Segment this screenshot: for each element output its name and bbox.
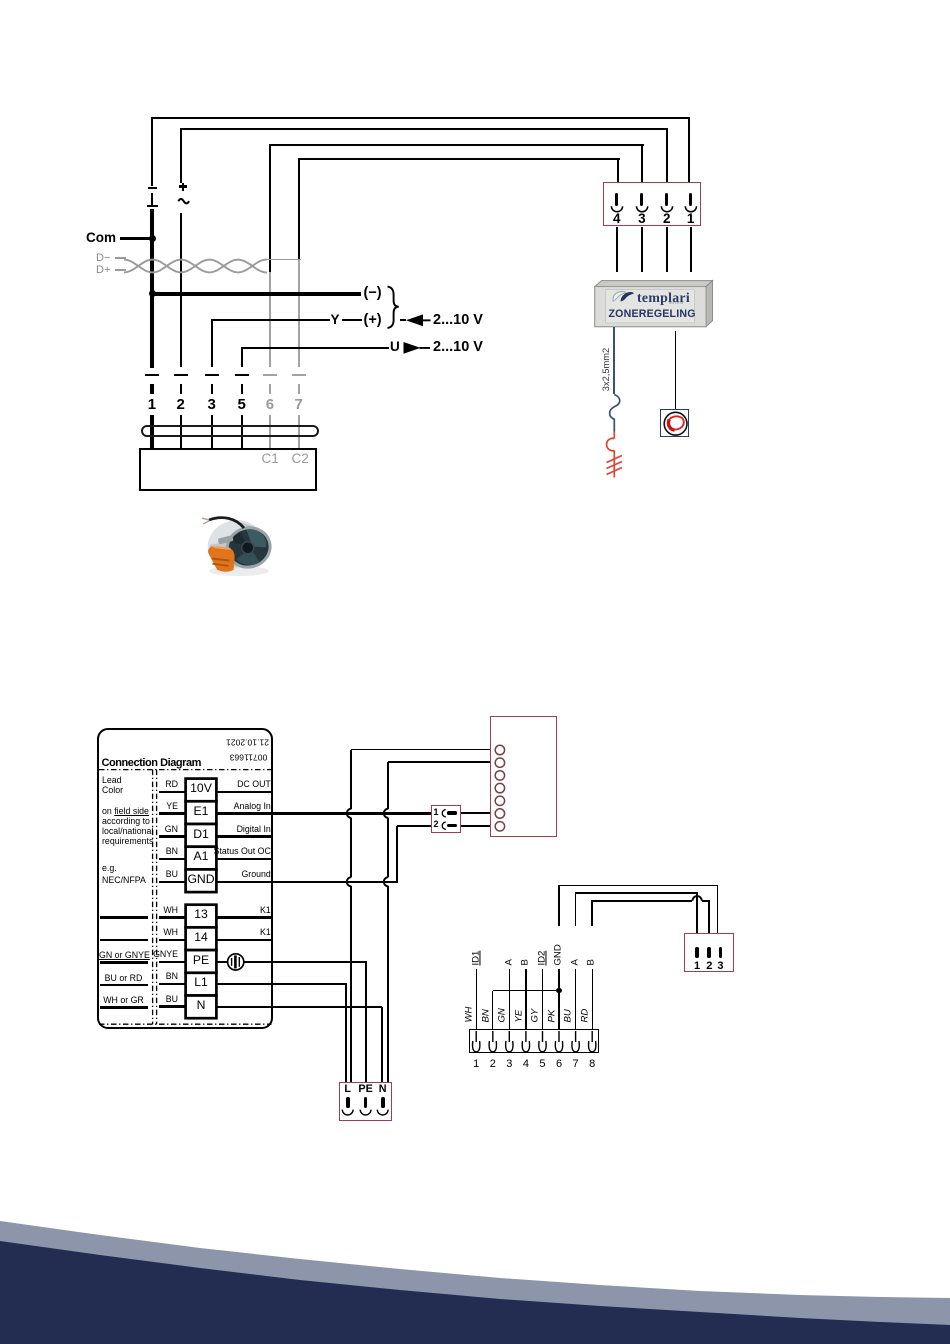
1-2-3 pin bar 3 bbox=[719, 947, 723, 958]
terminal 1 wire into actuator box bbox=[150, 415, 154, 448]
terminal label A1 bbox=[170, 850, 232, 863]
terminal 3 break dash bbox=[205, 374, 219, 377]
terminal 2 break dash bbox=[174, 374, 188, 377]
note Lead bbox=[102, 776, 122, 786]
wire plug pin 2 to controller bbox=[666, 227, 668, 272]
signal label Status Out OC bbox=[140, 847, 271, 857]
plug pin 2 socket arc bbox=[0, 0, 950, 400]
2-pin connector number 1 bbox=[434, 808, 439, 818]
terminal label E1 bbox=[170, 805, 232, 818]
lead wire BN bbox=[159, 858, 186, 861]
terminal 3 wire below break bbox=[211, 384, 213, 394]
terminal 1 break dash bbox=[145, 374, 159, 377]
label K1 row1 bbox=[140, 906, 271, 916]
field label BU or RD bbox=[99, 974, 148, 984]
terminal 1 thick vertical wire bbox=[150, 209, 154, 368]
PE wire to external connector bbox=[244, 961, 367, 963]
1-2-3 pin number 3 bbox=[713, 960, 727, 972]
note requirements bbox=[102, 837, 153, 847]
label date 21.10.2021 (rotated) bbox=[224, 737, 271, 746]
1-2-3 pin bar 2 bbox=[707, 947, 711, 958]
templari logo leaf bbox=[0, 0, 950, 500]
connection diagram rounded frame bbox=[97, 728, 273, 1029]
lead wire WH row1 bbox=[159, 916, 186, 919]
wire B right vertical down to plug pin 2 bbox=[666, 129, 668, 184]
terminal label 10V bbox=[170, 782, 232, 795]
B wire horizontal to 1-2-3 connector (left) bbox=[591, 900, 692, 902]
D+ stub wire bbox=[115, 269, 126, 271]
terminal label D1 bbox=[170, 828, 232, 841]
L1 vertical wire to L-PE-N connector bbox=[345, 984, 347, 1081]
2-pin connector box bbox=[431, 805, 461, 833]
strip pin number 4 bbox=[519, 1058, 533, 1070]
B wire vertical above strip bbox=[591, 901, 593, 927]
strip pin 4 upper wire bbox=[525, 969, 526, 1030]
N vertical wire to L-PE-N connector bbox=[381, 1007, 383, 1082]
GND wire vertical above strip bbox=[558, 886, 560, 927]
pump box bbox=[660, 409, 689, 437]
fan unit box bbox=[490, 716, 557, 837]
1-2-3 pin number 1 bbox=[690, 960, 704, 972]
plug pin 3 socket arc bbox=[0, 0, 950, 400]
note on field side bbox=[102, 807, 149, 817]
L-PE-N pin bar PE bbox=[364, 1097, 368, 1108]
label (+) bbox=[364, 313, 382, 329]
field lead line row2 bbox=[100, 939, 149, 942]
wire 2-pin connector pin2 to fan circle 7 bbox=[461, 825, 489, 827]
strip wire color GY bbox=[531, 1009, 542, 1023]
plug pin number 3 bbox=[638, 212, 646, 227]
terminal 6 break dash bbox=[263, 374, 277, 377]
fan N supply wire horizontal bbox=[388, 761, 489, 763]
field lead line GN or GNYE bbox=[100, 961, 149, 964]
strip pin number 5 bbox=[535, 1058, 549, 1070]
A wire horizontal to 1-2-3 connector bbox=[575, 892, 698, 894]
terminal 6 wire below break bbox=[269, 384, 271, 394]
wire controller to pump bbox=[675, 331, 677, 410]
label 2...10 V (U) bbox=[433, 340, 483, 356]
label C2 bbox=[292, 452, 309, 467]
wire A left vertical to terminal 1 symbol bbox=[151, 118, 153, 186]
terminal label GND bbox=[170, 873, 232, 886]
PE wire to earth symbol bbox=[216, 961, 227, 964]
strip pin 1 upper wire bbox=[476, 969, 477, 1030]
plug pin 4 socket arc bbox=[0, 0, 950, 400]
2-pin connector bar 1 bbox=[447, 811, 457, 815]
terminal label N bbox=[170, 999, 232, 1012]
field lead line row1 bbox=[100, 916, 149, 919]
lead wire BU row5 bbox=[159, 1005, 186, 1008]
strip pin 7 upper wire bbox=[575, 969, 576, 1030]
terminal number 1 bbox=[148, 397, 156, 414]
fan L supply wire horizontal bbox=[351, 749, 489, 751]
terminal 5 wire into actuator box bbox=[241, 415, 243, 448]
note local/national bbox=[102, 827, 153, 837]
plug pin number 1 bbox=[687, 212, 695, 227]
fan L supply vertical (upper) bbox=[350, 750, 352, 809]
lead label BN row4 bbox=[118, 972, 178, 982]
wire A right vertical down to plug pin 1 bbox=[688, 118, 690, 183]
signal label Analog In bbox=[140, 802, 271, 812]
strip wire color BU bbox=[564, 1009, 575, 1022]
strip pin 3 upper wire bbox=[509, 969, 510, 1030]
terminal 6 wire into actuator box bbox=[269, 415, 271, 448]
(-) thick wire from terminal 1 bbox=[154, 292, 361, 296]
signal wire DC OUT bbox=[216, 791, 270, 794]
plug connector 4-3-2-1 box bbox=[603, 182, 702, 226]
terminal number 5 bbox=[238, 397, 246, 414]
fan N supply vertical (upper) bbox=[387, 762, 389, 808]
Com wire bbox=[120, 237, 152, 240]
terminal number 7 bbox=[295, 397, 303, 414]
field label GN or GNYE bbox=[99, 951, 148, 961]
terminal 2 wire below break bbox=[180, 384, 182, 394]
terminal 7 wire into actuator box bbox=[298, 415, 300, 448]
wire 2-pin connector pin2 left bbox=[397, 825, 432, 827]
plug pin 3 contact bar bbox=[640, 193, 643, 206]
note according to bbox=[102, 817, 150, 827]
label U bbox=[390, 340, 400, 355]
1-2-3 pin bar 1 bbox=[695, 947, 699, 958]
plug pin 2 contact bar bbox=[665, 193, 668, 206]
signal wire Ground bbox=[216, 881, 270, 884]
signal label DC OUT bbox=[140, 780, 271, 790]
power cable squiggle bbox=[0, 0, 950, 500]
strip pin number 2 bbox=[486, 1058, 500, 1070]
terminal 2 wire into actuator box bbox=[180, 415, 182, 448]
strip signal label A pin 7 bbox=[570, 960, 581, 966]
dash Y to (+) bbox=[342, 319, 362, 321]
terminal 2 symbol tilde bbox=[0, 0, 950, 400]
label 3x2,5mm2 bbox=[601, 348, 611, 391]
strip pin 8 upper wire bbox=[592, 969, 593, 1030]
cable shield arc (red) bbox=[0, 0, 950, 500]
junction dot pin6 GND bbox=[556, 988, 561, 993]
signal label Ground bbox=[140, 870, 271, 880]
A wire drop to connector pin 1 bbox=[696, 893, 698, 933]
strip signal label A pin 3 bbox=[504, 960, 515, 966]
field lead line BU or RD bbox=[100, 984, 149, 987]
terminal 2 vertical wire bbox=[180, 213, 182, 368]
lead label BN bbox=[118, 847, 178, 857]
signal wire Analog In bbox=[216, 812, 270, 815]
lead wire BN row4 bbox=[159, 983, 186, 986]
strip signal label B pin 8 bbox=[587, 960, 598, 966]
lead label YE bbox=[118, 802, 178, 812]
A wire vertical above strip bbox=[575, 893, 577, 926]
gray link twisted pair to terminal 7 line bbox=[266, 259, 301, 261]
twisted pair D-/D+ bbox=[0, 0, 950, 400]
label D+ bbox=[96, 264, 110, 276]
plug pin 4 contact bar bbox=[615, 193, 618, 206]
terminal label PE bbox=[170, 954, 232, 967]
bridge wire pin2 to pin6 bbox=[493, 990, 559, 991]
power cable blue line bbox=[613, 327, 615, 395]
terminal 7 gray vertical wire bbox=[298, 260, 300, 368]
strip signal label ID1 pin 1 bbox=[471, 951, 482, 966]
wire D left vertical down to twisted pair bbox=[298, 159, 300, 263]
L-PE-N label PE bbox=[358, 1084, 374, 1096]
terminal 7 wire below break bbox=[298, 384, 300, 394]
lead label WH row2 bbox=[118, 928, 178, 938]
signal wire Digital In bbox=[216, 835, 270, 838]
terminal number 3 bbox=[208, 397, 216, 414]
1-2-3 pin number 2 bbox=[702, 960, 716, 972]
terminal 2 symbol plus bbox=[182, 183, 184, 191]
2-pin connector number 2 bbox=[434, 820, 439, 830]
lead wire GN bbox=[159, 835, 186, 838]
L-PE-N label L bbox=[340, 1084, 356, 1096]
label Y bbox=[331, 313, 340, 328]
L-PE-N label N bbox=[375, 1084, 391, 1096]
B wire horizontal to 1-2-3 connector (right) bbox=[702, 900, 711, 902]
terminal 6 gray vertical wire bbox=[269, 272, 271, 368]
lead wire GNYE row3 bbox=[159, 961, 186, 964]
wire D horizontal (D+ line to plug pin 4) bbox=[298, 158, 620, 160]
note e.g. bbox=[102, 864, 117, 874]
lead wire WH row2 bbox=[159, 939, 186, 942]
cable bundle stadium outline bbox=[141, 425, 319, 437]
lead wire BU bbox=[159, 881, 186, 884]
lead label RD bbox=[118, 780, 178, 790]
strip pin number 6 bbox=[552, 1058, 566, 1070]
pump circle bbox=[0, 0, 950, 500]
strip wire color RD bbox=[580, 1009, 591, 1023]
dash brace to arrow bbox=[400, 319, 406, 321]
strip pin 5 upper wire bbox=[542, 969, 543, 1030]
strip wire color YE bbox=[514, 1010, 525, 1023]
GND wire drop to connector pin 3 bbox=[717, 886, 719, 934]
terminal 5 vertical wire bbox=[241, 348, 243, 367]
brace joining (-) and (+) bbox=[0, 0, 950, 400]
Y wire from terminal 3 bbox=[211, 319, 330, 321]
strip pin number 3 bbox=[502, 1058, 516, 1070]
terminal label 14 bbox=[170, 931, 232, 944]
wire plug pin 4 to controller bbox=[616, 227, 618, 272]
label 2...10 V (Y) bbox=[433, 313, 483, 329]
lead label BU row5 bbox=[118, 995, 178, 1005]
L-PE-N connector box bbox=[339, 1082, 392, 1121]
1-2-3 connector box bbox=[684, 933, 734, 972]
wire plug pin 3 to controller bbox=[641, 227, 643, 272]
actuator product photo bbox=[198, 514, 278, 580]
PE vertical wire to L-PE-N connector bbox=[365, 962, 367, 1082]
plug pin number 4 bbox=[613, 212, 621, 227]
wire D right vertical down to plug pin 4 bbox=[617, 159, 619, 183]
terminal 1 common symbol (bar and inverted T) bbox=[148, 187, 157, 189]
lead label GNYE row3 bbox=[118, 950, 178, 960]
signal wire Status Out OC bbox=[216, 858, 270, 861]
lead label BU bbox=[118, 870, 178, 880]
GND wire horizontal to 1-2-3 connector bbox=[558, 885, 718, 887]
L-PE-N pin bar L bbox=[346, 1097, 350, 1108]
fan N supply vertical (lower) bbox=[387, 886, 389, 1081]
relay wire K1 row1 bbox=[216, 916, 270, 919]
wire plug pin 1 to controller bbox=[690, 227, 692, 272]
B wire drop to connector pin 2 bbox=[708, 901, 710, 934]
field lead line WH or GR bbox=[100, 1006, 149, 1009]
label Com bbox=[86, 231, 116, 246]
label D- bbox=[96, 252, 110, 264]
terminal 5 wire below break bbox=[241, 384, 243, 394]
L-PE-N pin bar N bbox=[381, 1097, 385, 1108]
earth slashes (red) bbox=[0, 0, 950, 500]
junction dot Com on terminal 1 bbox=[149, 235, 156, 242]
strip pin number 7 bbox=[569, 1058, 583, 1070]
wire B left vertical to ~+ symbol bbox=[180, 129, 182, 184]
strip wire color BN bbox=[481, 1009, 492, 1022]
wire C horizontal (D- line to plug pin 3) bbox=[269, 144, 644, 146]
terminal 5 break dash bbox=[235, 374, 249, 377]
junction dot (-) on terminal 1 bbox=[149, 290, 156, 297]
L1 wire to external connector bbox=[216, 983, 347, 985]
field label WH or GR bbox=[99, 996, 148, 1006]
terminal number 6 bbox=[266, 397, 274, 414]
lead wire RD bbox=[159, 791, 186, 794]
Analog In wire to 2-pin connector bbox=[216, 812, 431, 815]
wire A horizontal (terminal 1 to plug pin 1) bbox=[151, 117, 690, 119]
lead wire YE bbox=[159, 812, 186, 815]
strip pin 6 upper wire bbox=[558, 969, 559, 1030]
plug pin number 2 bbox=[663, 212, 671, 227]
N wire to external connector bbox=[216, 1006, 382, 1008]
D- stub wire bbox=[115, 257, 126, 259]
arrow right 2...10V bbox=[0, 0, 950, 400]
U wire from terminal 5 bbox=[241, 347, 389, 349]
wire C right vertical down to plug pin 3 bbox=[641, 145, 643, 183]
templari logo text bbox=[637, 290, 690, 305]
pump red impeller scribble bbox=[0, 0, 950, 500]
vertical wire Ground to 2-pin connector bbox=[396, 826, 398, 882]
plug pin 1 socket arc bbox=[0, 0, 950, 400]
relay wire K1 row2 bbox=[216, 939, 270, 942]
8-pin terminal strip box bbox=[469, 1029, 599, 1053]
lead label WH row1 bbox=[118, 906, 178, 916]
strip wire color GN bbox=[498, 1008, 509, 1022]
terminal 3 wire into actuator box bbox=[211, 415, 213, 448]
note NEC/NFPA bbox=[102, 876, 146, 886]
templari logo small text bbox=[669, 301, 684, 305]
strip signal label B pin 4 bbox=[521, 960, 532, 966]
strip signal label GND pin 6 bbox=[554, 945, 565, 966]
wire B horizontal (terminal 2 to plug pin 2) bbox=[180, 128, 668, 130]
wire 2-pin connector pin1 to fan circle 6 bbox=[461, 812, 489, 814]
wire C left vertical down to twisted pair bbox=[269, 145, 271, 273]
terminal number 2 bbox=[177, 397, 185, 414]
Ground wire extension to 2-pin connector riser bbox=[269, 881, 398, 883]
strip pin number 1 bbox=[469, 1058, 483, 1070]
arrow left 2...10V bbox=[0, 0, 950, 400]
label C1 bbox=[262, 452, 279, 467]
terminal label 13 bbox=[170, 908, 232, 921]
fan L supply vertical (middle) bbox=[350, 818, 352, 877]
strip wire color PK bbox=[547, 1010, 558, 1023]
plug pin 1 contact bar bbox=[689, 193, 692, 206]
signal label Digital In bbox=[140, 825, 271, 835]
strip pin 2 upper wire bbox=[492, 991, 493, 1030]
actuator terminal box bbox=[139, 448, 317, 490]
fan N supply vertical (middle) bbox=[387, 818, 389, 877]
2-pin connector bar 2 bbox=[447, 824, 457, 828]
terminal label L1 bbox=[170, 976, 232, 989]
title Connection Diagram bbox=[102, 757, 201, 769]
strip signal label ID2 pin 5 bbox=[537, 951, 548, 966]
strip wire color WH bbox=[464, 1007, 475, 1023]
label 00711663 (rotated) bbox=[229, 752, 268, 761]
note Color bbox=[102, 786, 123, 796]
fan L supply vertical (lower) bbox=[350, 886, 352, 1081]
templari zone controller box (3D) bbox=[0, 0, 950, 500]
label (-) bbox=[364, 286, 382, 302]
label ZONEREGELING bbox=[609, 309, 696, 321]
terminal 1 wire below break bbox=[150, 384, 154, 394]
lead label GN bbox=[118, 825, 178, 835]
label K1 row2 bbox=[140, 928, 271, 938]
strip pin number 8 bbox=[585, 1058, 599, 1070]
terminal 3 vertical wire bbox=[211, 320, 213, 367]
terminal 7 break dash bbox=[292, 374, 306, 377]
